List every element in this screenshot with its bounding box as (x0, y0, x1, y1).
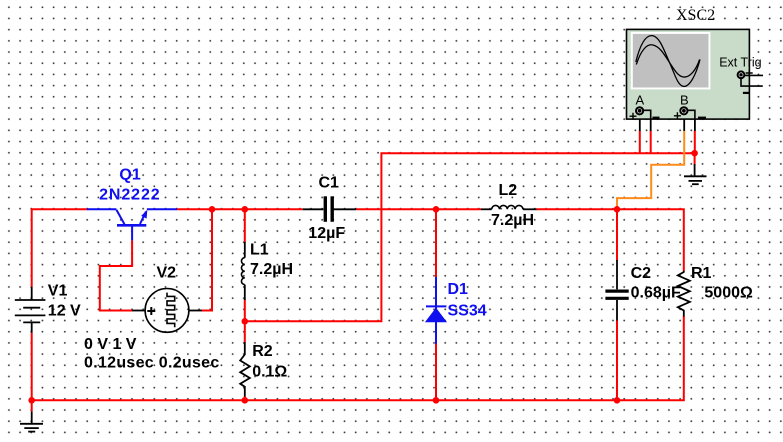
svg-text:7.2µH: 7.2µH (250, 261, 293, 278)
svg-text:C1: C1 (319, 175, 340, 192)
svg-text:XSC2: XSC2 (676, 7, 715, 24)
svg-text:0.12usec 0.2usec: 0.12usec 0.2usec (84, 355, 220, 372)
svg-text:V2: V2 (157, 265, 177, 282)
svg-text:12 V: 12 V (48, 303, 81, 320)
svg-text:D1: D1 (448, 281, 469, 298)
svg-text:0.68µF: 0.68µF (631, 285, 681, 302)
svg-text:2N2222: 2N2222 (99, 187, 160, 204)
svg-text:A: A (636, 93, 645, 108)
svg-text:SS34: SS34 (448, 303, 487, 320)
svg-text:R2: R2 (252, 343, 273, 360)
svg-text:L1: L1 (250, 242, 269, 259)
svg-text:C2: C2 (631, 265, 652, 282)
svg-text:L2: L2 (499, 182, 518, 199)
svg-text:Ext Trig: Ext Trig (719, 56, 761, 70)
svg-text:5000Ω: 5000Ω (704, 285, 753, 302)
svg-text:Q1: Q1 (119, 167, 140, 184)
svg-text:0.1Ω: 0.1Ω (252, 364, 287, 381)
svg-text:7.2µH: 7.2µH (491, 212, 534, 229)
svg-text:R1: R1 (691, 265, 712, 282)
svg-text:0 V 1 V: 0 V 1 V (84, 336, 137, 353)
svg-text:V1: V1 (48, 283, 68, 300)
svg-text:B: B (680, 93, 689, 108)
svg-text:12µF: 12µF (308, 225, 345, 242)
